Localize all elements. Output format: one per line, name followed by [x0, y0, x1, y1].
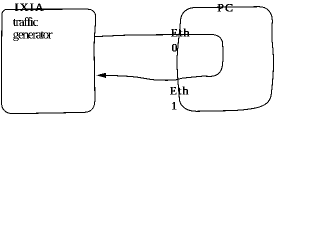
IXIA traffic generator box: [2, 9, 96, 114]
svg-text:PC: PC: [217, 0, 234, 14]
svg-text:Eth: Eth: [170, 84, 190, 98]
arrowhead into IXIA box: [96, 73, 106, 78]
svg-text:Eth: Eth: [171, 25, 191, 39]
svg-text:0: 0: [172, 40, 178, 54]
connector loop wire: IXIA out -> Eth0 -> loop in PC -> Eth1 -> back to IXIA: [95, 34, 223, 80]
svg-text:1: 1: [171, 99, 177, 113]
svg-text:IXIA: IXIA: [15, 0, 46, 14]
PC box: [177, 7, 274, 112]
svg-text:generator: generator: [13, 26, 54, 41]
